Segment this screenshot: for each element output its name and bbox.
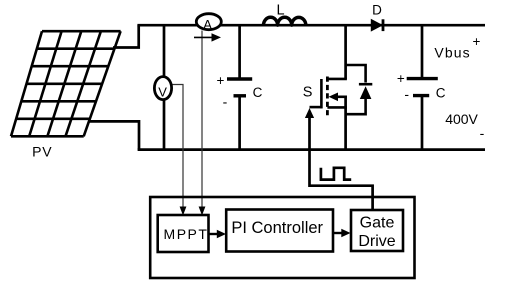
PWM pulse symbol xyxy=(321,168,351,180)
body diode cathode bar xyxy=(359,83,372,86)
inductor cusp knots xyxy=(276,23,280,27)
arrowhead voltage sense into MPPT xyxy=(180,207,187,216)
capacitor C2 (output) top plate xyxy=(407,77,438,80)
transistor Q1 body contact with arrow xyxy=(334,96,347,99)
svg-text:Drive: Drive xyxy=(358,233,395,250)
svg-text:Vbus: Vbus xyxy=(434,44,470,60)
wire: input capacitor branch top xyxy=(238,25,241,78)
capacitor C1 bottom plate xyxy=(234,94,247,97)
gate drive wire with up arrow to gate xyxy=(310,117,373,211)
transistor Q1 channel (dashed) xyxy=(326,77,329,116)
svg-text:PV: PV xyxy=(32,144,52,160)
svg-text:-: - xyxy=(223,94,228,110)
transistor Q1 (MOSFET S) drain contact xyxy=(327,78,347,81)
transistor Q1 source contact xyxy=(327,106,347,109)
wire: PV positive lead to top rail xyxy=(113,25,139,47)
svg-text:D: D xyxy=(372,3,382,18)
svg-text:A: A xyxy=(203,17,212,32)
voltmeter V1 xyxy=(154,77,171,100)
body diode loop wiring xyxy=(346,65,366,114)
wire: output capacitor branch top xyxy=(421,25,424,77)
transistor Q1 gate bar xyxy=(320,79,323,108)
wire: MOSFET drain branch xyxy=(344,25,347,79)
capacitor C1 (input) top plate xyxy=(227,77,252,80)
svg-text:+: + xyxy=(397,71,405,86)
wire: top rail xyxy=(137,24,485,27)
ammeter A1 xyxy=(196,14,221,30)
wire: current sense line to MPPT xyxy=(201,31,203,210)
capacitor C2 bottom plate xyxy=(413,94,429,97)
block Gate Drive xyxy=(351,210,403,251)
diode D1 xyxy=(371,20,382,31)
svg-text:S: S xyxy=(303,85,313,101)
svg-text:C: C xyxy=(436,86,446,101)
PV panel (solar array grid) xyxy=(11,31,121,136)
wire: bottom rail xyxy=(138,148,485,151)
svg-text:400V: 400V xyxy=(445,111,478,127)
wire: voltmeter branch xyxy=(163,25,166,149)
svg-text:-: - xyxy=(480,125,485,141)
controller outer box xyxy=(150,197,414,278)
wire: voltage sense line to MPPT xyxy=(172,85,184,210)
svg-text:+: + xyxy=(472,34,480,49)
body diode triangle xyxy=(360,86,372,99)
current direction arrow xyxy=(194,36,214,38)
svg-text:V: V xyxy=(158,85,167,100)
svg-text:L: L xyxy=(276,3,284,19)
svg-text:MPPT: MPPT xyxy=(164,226,209,242)
svg-text:-: - xyxy=(404,86,409,102)
svg-text:Gate: Gate xyxy=(360,214,395,231)
diode D1 cathode bar xyxy=(382,19,385,31)
svg-text:PI Controller: PI Controller xyxy=(231,219,323,237)
arrowhead current sense into MPPT xyxy=(199,207,206,216)
arrow MPPT to PI xyxy=(209,233,220,235)
inductor L1 xyxy=(264,17,306,25)
svg-text:C: C xyxy=(253,85,263,100)
wire: MOSFET source to bottom rail xyxy=(344,96,347,150)
transistor Q1 gate lead xyxy=(310,106,323,109)
wire: PV negative lead to bottom rail xyxy=(88,121,139,149)
block PI Controller xyxy=(226,210,333,252)
wire: output capacitor branch bottom xyxy=(421,96,424,150)
block MPPT xyxy=(158,215,209,252)
arrow PI to Gate Drive xyxy=(333,232,344,234)
wire: input capacitor branch bottom xyxy=(238,96,241,150)
svg-text:+: + xyxy=(216,73,224,88)
